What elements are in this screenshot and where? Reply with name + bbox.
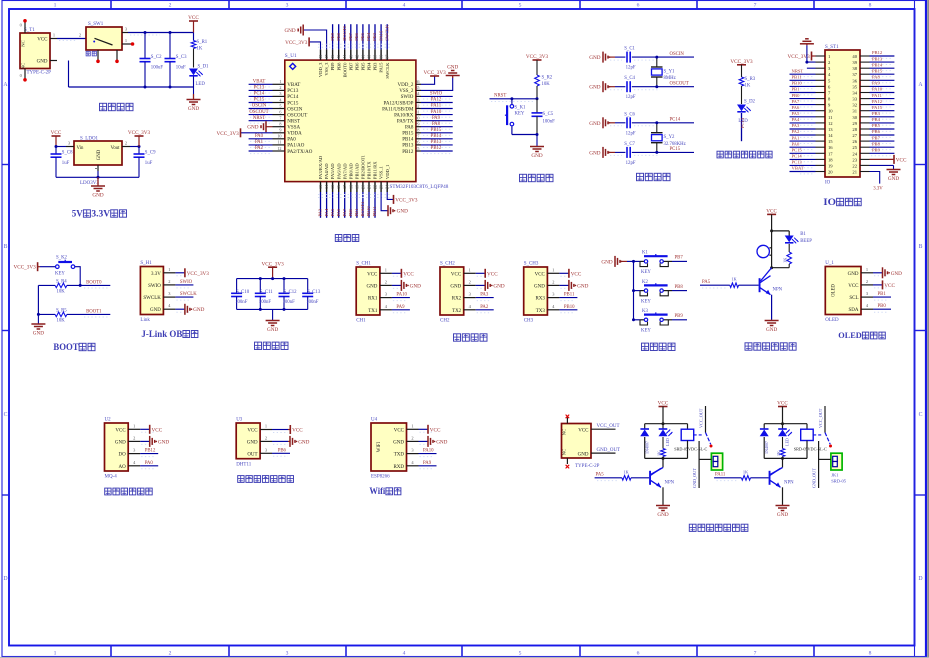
svg-text:NRST: NRST <box>287 120 300 125</box>
LED B1 BEEP <box>785 231 813 244</box>
svg-text:1K: 1K <box>197 47 203 52</box>
module U2 MQ-4 methane sensor <box>105 417 170 479</box>
svg-text:PB13: PB13 <box>872 56 883 61</box>
svg-text:U4: U4 <box>371 417 378 422</box>
svg-text:S_C2: S_C2 <box>151 55 162 60</box>
ground GND alarm <box>765 295 779 333</box>
svg-text:16: 16 <box>336 185 341 189</box>
svg-text:S_CH2: S_CH2 <box>440 261 455 266</box>
svg-text:2: 2 <box>265 435 267 440</box>
svg-text:S_D2: S_D2 <box>744 100 756 105</box>
svg-text:GND: GND <box>589 150 600 156</box>
svg-text:12pF: 12pF <box>626 161 636 166</box>
svg-text:LED: LED <box>196 82 206 87</box>
svg-text:2: 2 <box>552 279 554 284</box>
svg-text:TX2: TX2 <box>452 309 462 314</box>
svg-text:1: 1 <box>53 33 55 38</box>
svg-text:PA5: PA5 <box>330 208 335 216</box>
svg-text:PB8: PB8 <box>675 285 684 290</box>
svg-text:22: 22 <box>373 185 378 189</box>
resistor 1K alarm base <box>700 277 759 288</box>
svg-text:GND: GND <box>247 440 258 445</box>
svg-text:DHT11: DHT11 <box>236 463 252 468</box>
svg-text:33: 33 <box>852 97 857 102</box>
svg-text:PC15: PC15 <box>670 147 681 152</box>
power port VCC_3V3 at U1 pin9 VDDA <box>216 128 272 137</box>
svg-text:PB9: PB9 <box>872 148 881 153</box>
svg-text:23: 23 <box>852 157 857 162</box>
svg-text:12pF: 12pF <box>626 131 636 136</box>
svg-text:12pF: 12pF <box>626 66 636 71</box>
wire run LED to PC13 <box>740 113 745 141</box>
svg-text:NC: NC <box>21 40 26 46</box>
svg-text:PB15: PB15 <box>872 68 883 73</box>
ground GND above ST1 <box>800 39 814 46</box>
title: key circuit <box>642 343 676 350</box>
crystal S_Y1 8MHz <box>651 56 676 89</box>
svg-text:GND: GND <box>298 439 309 445</box>
svg-text:S_C5: S_C5 <box>543 112 554 117</box>
svg-text:32.768KHz: 32.768KHz <box>664 142 686 147</box>
svg-text:PB8: PB8 <box>336 62 341 71</box>
svg-text:PC13: PC13 <box>740 117 745 128</box>
svg-text:VCC_3V3: VCC_3V3 <box>423 70 446 76</box>
ground GND at U1 pin8 VSSA <box>247 121 272 132</box>
svg-text:VCC: VCC <box>152 427 163 433</box>
svg-text:GND: GND <box>577 283 588 289</box>
svg-text:PB7: PB7 <box>348 62 353 71</box>
svg-text:PC15: PC15 <box>254 98 265 103</box>
svg-text:1: 1 <box>265 424 267 429</box>
svg-text:GND: GND <box>436 439 447 445</box>
wire relay Q2 top rail <box>764 422 807 425</box>
svg-text:CH1: CH1 <box>356 319 366 324</box>
svg-text:PA10: PA10 <box>423 449 434 454</box>
svg-text:1: 1 <box>866 267 868 272</box>
svg-text:100nF: 100nF <box>306 300 319 305</box>
svg-text:1N4007: 1N4007 <box>644 441 649 454</box>
svg-text:S_C4: S_C4 <box>624 76 635 81</box>
ground GND LDO <box>91 177 105 198</box>
resistor 1K relay LED Q2 <box>776 437 785 458</box>
svg-text:PB5: PB5 <box>360 32 365 41</box>
svg-text:VCC: VCC <box>403 271 414 277</box>
ground GND ST1 pin22 <box>870 165 901 181</box>
power port VCC_3V3 LDO out <box>128 130 151 146</box>
svg-text:Wifi: Wifi <box>369 486 385 496</box>
svg-text:2: 2 <box>169 651 172 657</box>
svg-text:VSSA: VSSA <box>287 126 300 131</box>
title: methane detection module <box>105 488 153 495</box>
ground GND power circuit <box>187 94 201 112</box>
title: filter circuit <box>255 342 289 349</box>
svg-text:VCC: VCC <box>394 428 405 433</box>
svg-text:WIFI: WIFI <box>377 441 382 452</box>
svg-text:SWIO: SWIO <box>401 95 414 100</box>
title: power circuit <box>100 103 134 110</box>
svg-text:21: 21 <box>852 170 857 175</box>
svg-text:PA2/TX/AO: PA2/TX/AO <box>287 150 312 155</box>
svg-text:PB11: PB11 <box>372 206 377 217</box>
U1 right net wires and labels <box>421 92 453 154</box>
title: reset circuit <box>520 174 554 181</box>
svg-text:13: 13 <box>318 185 323 189</box>
wire BOOT0 net <box>67 280 110 288</box>
resistor S_R4 10K <box>55 279 67 294</box>
svg-text:GND: GND <box>247 125 258 131</box>
svg-text:35: 35 <box>852 84 857 89</box>
svg-text:PB12: PB12 <box>431 146 442 151</box>
svg-text:PB12: PB12 <box>872 50 883 55</box>
relay contact and output <box>694 406 713 448</box>
ground GND below chip <box>388 205 408 216</box>
title: main chip <box>335 235 359 242</box>
wire ST1 pin21 to 3.3V <box>870 172 884 192</box>
svg-text:PA4: PA4 <box>324 208 329 216</box>
svg-text:35: 35 <box>415 85 419 90</box>
svg-text:S_CH3: S_CH3 <box>524 261 539 266</box>
svg-text:PB13: PB13 <box>402 144 414 149</box>
connector TYPE-C-2P relay power <box>562 415 600 469</box>
title: temperature-humidity detection module <box>238 476 294 483</box>
svg-text:PB0/AD: PB0/AD <box>348 163 353 180</box>
svg-text:PC14: PC14 <box>792 154 803 159</box>
svg-text:100uF: 100uF <box>151 65 164 70</box>
svg-text:PA15: PA15 <box>379 62 384 73</box>
svg-text:PA6: PA6 <box>792 105 800 110</box>
svg-text:S_Y2: S_Y2 <box>664 135 676 140</box>
svg-text:GND: GND <box>766 327 777 333</box>
svg-text:25: 25 <box>852 145 857 150</box>
svg-text:VBAT: VBAT <box>792 166 804 171</box>
svg-text:GND_OUT: GND_OUT <box>692 468 697 488</box>
svg-text:VBAT: VBAT <box>287 83 300 88</box>
svg-text:30: 30 <box>415 116 419 121</box>
svg-text:PB14: PB14 <box>872 62 883 67</box>
wire BOOT1 net <box>67 309 110 317</box>
LED S_D1 <box>189 65 209 95</box>
svg-text:NC: NC <box>562 449 567 455</box>
title: J-Link OB interface <box>141 329 198 339</box>
svg-text:14: 14 <box>828 133 833 138</box>
svg-text:PA5: PA5 <box>792 111 800 116</box>
svg-text:GND: GND <box>493 283 504 289</box>
svg-text:BOOT: BOOT <box>53 343 79 353</box>
svg-text:5: 5 <box>279 103 281 108</box>
svg-text:S_K2: S_K2 <box>56 256 68 261</box>
svg-text:OSCOUT: OSCOUT <box>287 113 307 118</box>
svg-text:GND: GND <box>393 440 404 445</box>
capacitor S_C9 1uF <box>134 147 157 178</box>
svg-text:S_R2: S_R2 <box>542 76 553 81</box>
capacitor S_C1 12pF with GND and OSCIN <box>589 47 694 71</box>
title: IO expansion port <box>823 198 861 208</box>
title: BOOT circuit <box>53 343 95 353</box>
svg-text:1: 1 <box>385 267 387 272</box>
svg-text:STM32F103C8T6_LQFP48: STM32F103C8T6_LQFP48 <box>390 184 449 190</box>
svg-text:VCC: VCC <box>571 271 582 277</box>
svg-text:6: 6 <box>279 109 281 114</box>
svg-text:PB13: PB13 <box>431 140 442 145</box>
svg-text:S_D1: S_D1 <box>198 65 210 70</box>
svg-text:PA4/AD: PA4/AD <box>324 163 329 179</box>
svg-text:KEY: KEY <box>641 299 651 304</box>
U1 left pin stubs and numbers <box>273 79 285 151</box>
wire relay Q1 bottom rail <box>645 457 688 460</box>
svg-text:TYPE-C-2P: TYPE-C-2P <box>27 71 52 76</box>
svg-text:12: 12 <box>828 121 833 126</box>
svg-text:11: 11 <box>277 140 281 145</box>
svg-text:D: D <box>918 576 922 582</box>
svg-text:VCC: VCC <box>292 428 303 434</box>
svg-text:8: 8 <box>869 651 872 657</box>
svg-text:VCC: VCC <box>367 272 378 277</box>
capacitor S_C7 12pF with GND and PC15 <box>589 142 694 166</box>
svg-text:PB10/TX: PB10/TX <box>367 161 372 179</box>
svg-text:GND: GND <box>193 307 204 313</box>
wire U1 pin36 VDD_2 to VCC_3V3 <box>421 76 435 84</box>
svg-text:VCC_3V3: VCC_3V3 <box>526 54 549 60</box>
svg-text:IO: IO <box>823 198 836 208</box>
wire alarm top node <box>770 229 789 267</box>
svg-text:10K: 10K <box>542 82 551 87</box>
wire relay Q1 top rail <box>645 422 688 425</box>
svg-text:PB5: PB5 <box>361 62 366 71</box>
svg-text:S_C12: S_C12 <box>284 290 298 295</box>
U1 bottom net wires and labels <box>318 192 390 218</box>
svg-text:37: 37 <box>852 72 857 77</box>
svg-text:Vin: Vin <box>77 146 85 151</box>
svg-text:NPN: NPN <box>665 480 675 485</box>
ground GND reset <box>530 135 544 159</box>
svg-text:PA4: PA4 <box>792 117 800 122</box>
svg-text:4: 4 <box>403 3 406 9</box>
svg-text:S_U1: S_U1 <box>285 53 297 59</box>
svg-text:SDA: SDA <box>848 308 858 313</box>
svg-text:GND: GND <box>891 271 902 277</box>
svg-text:GND: GND <box>777 512 788 518</box>
svg-text:PA15: PA15 <box>872 105 883 110</box>
svg-text:VCC: VCC <box>51 130 62 136</box>
svg-text:VCC_3V3: VCC_3V3 <box>128 130 151 136</box>
ground GND top of chip <box>284 25 303 36</box>
svg-text:PB1/AD: PB1/AD <box>355 163 360 180</box>
svg-text:TYPE-C-2P: TYPE-C-2P <box>575 464 600 469</box>
svg-text:PB6: PB6 <box>278 448 287 453</box>
svg-text:VCC: VCC <box>535 272 546 277</box>
svg-text:27: 27 <box>415 134 419 139</box>
svg-text:1: 1 <box>411 423 413 428</box>
wire LDO pin3 to VCC <box>56 146 66 148</box>
capacitor S_C13 100nF <box>302 279 321 310</box>
svg-text:8: 8 <box>279 122 281 127</box>
svg-text:VCC_OUT: VCC_OUT <box>597 424 620 429</box>
svg-text:13: 13 <box>828 127 833 132</box>
svg-text:PA3/RX/AD: PA3/RX/AD <box>318 155 323 179</box>
svg-text:PB4: PB4 <box>366 32 371 41</box>
svg-text:VCC: VCC <box>578 429 589 434</box>
svg-text:U_1: U_1 <box>825 261 834 266</box>
svg-text:VCC_3V3: VCC_3V3 <box>261 261 284 267</box>
svg-text:PC14: PC14 <box>287 95 299 100</box>
svg-text:NC: NC <box>562 429 567 435</box>
svg-text:PB5: PB5 <box>872 123 881 128</box>
svg-text:PA12: PA12 <box>872 99 883 104</box>
svg-text:17: 17 <box>342 185 347 189</box>
svg-text:KEY: KEY <box>641 270 651 275</box>
svg-text:1: 1 <box>168 267 170 272</box>
wire U1 pin23 VSS_1 to GND <box>381 192 388 211</box>
svg-text:VSS_2: VSS_2 <box>399 89 414 94</box>
svg-text:1: 1 <box>54 651 57 657</box>
svg-text:PA10: PA10 <box>396 293 407 298</box>
svg-text:MQ-4: MQ-4 <box>105 475 118 480</box>
svg-text:26: 26 <box>415 140 419 145</box>
svg-text:PB11: PB11 <box>564 293 575 298</box>
svg-text:NC: NC <box>21 63 26 69</box>
buzzer <box>757 245 772 257</box>
svg-text:RXD: RXD <box>393 465 404 470</box>
svg-text:SCL: SCL <box>849 296 858 301</box>
svg-text:PB3: PB3 <box>872 111 881 116</box>
wire LDO pin2 to VCC_3V3 <box>130 146 139 148</box>
svg-text:PA11: PA11 <box>872 93 883 98</box>
svg-text:VCC: VCC <box>777 401 788 407</box>
wire U1 pin24 VDD_1 to VCC_3V3 <box>387 192 393 199</box>
svg-text:40: 40 <box>367 55 372 59</box>
svg-text:PA3: PA3 <box>792 123 800 128</box>
svg-text:B: B <box>919 244 923 250</box>
svg-text:J-Link OB: J-Link OB <box>141 329 182 339</box>
key K1 <box>634 251 688 275</box>
capacitor S_C3 10uF <box>165 33 188 88</box>
LED relay indicator Q2 <box>778 424 792 446</box>
key K2 <box>634 280 688 304</box>
svg-text:1K: 1K <box>623 469 629 474</box>
svg-text:GND: GND <box>848 272 859 277</box>
connector S_ST1 IO header body <box>816 45 870 186</box>
svg-text:GND: GND <box>531 153 542 159</box>
svg-text:SWIO: SWIO <box>430 92 443 97</box>
transistor Q NPN relay Q2 <box>769 458 795 487</box>
svg-text:2: 2 <box>469 279 471 284</box>
svg-text:39: 39 <box>373 55 378 59</box>
svg-text:PC15: PC15 <box>792 148 803 153</box>
svg-text:LED: LED <box>665 438 670 446</box>
svg-text:GND: GND <box>188 106 199 112</box>
svg-text:OSCIN: OSCIN <box>670 52 685 57</box>
svg-text:1: 1 <box>125 38 127 43</box>
svg-text:D: D <box>3 576 7 582</box>
U1 top pin stubs and numbers <box>318 49 390 60</box>
power port VCC relay Q2 <box>777 401 788 424</box>
wire U1 pin47 VSS_3 to GND <box>303 30 326 49</box>
svg-text:7: 7 <box>754 651 757 657</box>
svg-text:OLED: OLED <box>825 318 839 323</box>
svg-text:100nF: 100nF <box>235 300 248 305</box>
svg-text:VBAT: VBAT <box>253 80 266 85</box>
connector U_1 OLED display <box>825 261 902 323</box>
svg-text:OLED: OLED <box>838 330 862 340</box>
svg-text:U3: U3 <box>236 417 243 422</box>
svg-text:32: 32 <box>852 103 857 108</box>
title: program run indicator <box>717 151 772 158</box>
svg-text:PA3: PA3 <box>318 208 323 216</box>
svg-text:18: 18 <box>828 157 833 162</box>
resistor 1K relay base Q1 <box>595 469 650 480</box>
svg-text:VCC: VCC <box>430 427 441 433</box>
wire relay Q2 bottom rail <box>764 457 807 460</box>
ground GND right of chip <box>446 65 460 79</box>
capacitor S_C10 100nF <box>231 279 250 310</box>
wire GND_OUT relay Q1 <box>692 441 712 488</box>
svg-text:PB14: PB14 <box>431 134 442 139</box>
svg-text:23: 23 <box>379 185 384 189</box>
svg-text:8MHz: 8MHz <box>664 76 676 81</box>
svg-text:6: 6 <box>637 651 640 657</box>
U1 bottom pin stubs and numbers <box>318 182 390 192</box>
svg-text:100nF: 100nF <box>283 300 296 305</box>
svg-text:PA11/USB/DM: PA11/USB/DM <box>382 107 414 112</box>
power port VCC_3V3 run LED <box>730 59 753 65</box>
svg-text:IO: IO <box>825 181 831 186</box>
svg-text:GND: GND <box>410 283 421 289</box>
svg-text:BOOT1: BOOT1 <box>86 309 102 314</box>
svg-text:VCC: VCC <box>37 38 48 43</box>
svg-text:43: 43 <box>348 55 353 59</box>
svg-text:10K: 10K <box>57 289 66 294</box>
svg-text:PA2: PA2 <box>255 146 264 151</box>
svg-text:47: 47 <box>324 55 329 59</box>
svg-text:RX3: RX3 <box>535 297 545 302</box>
wire filter top rail <box>237 277 308 280</box>
power port VCC alarm <box>766 209 777 231</box>
svg-text:2: 2 <box>133 435 135 440</box>
power port VCC_3V3 reset <box>526 54 549 75</box>
svg-text:BOOT0: BOOT0 <box>342 25 347 41</box>
svg-text:S_ST1: S_ST1 <box>825 45 839 50</box>
diode 1N4007 flyback Q2 <box>760 424 769 459</box>
svg-text:S_C9: S_C9 <box>145 151 156 156</box>
svg-text:VCC: VCC <box>896 157 907 163</box>
svg-text:PB1: PB1 <box>354 208 359 217</box>
svg-text:SWIO: SWIO <box>180 280 193 285</box>
connector S_CH2 serial 2 <box>440 261 505 323</box>
svg-text:19: 19 <box>828 163 833 168</box>
power port VCC_3V3 top of chip <box>285 37 309 46</box>
svg-text:BOOT0: BOOT0 <box>342 62 347 78</box>
capacitor S_C4 12pF with GND and OSCOUT <box>589 76 694 100</box>
svg-text:VCC_3V3: VCC_3V3 <box>395 197 418 203</box>
svg-text:CH2: CH2 <box>440 319 450 324</box>
svg-text:PA1: PA1 <box>792 135 800 140</box>
svg-text:PA10: PA10 <box>431 110 442 115</box>
svg-text:1: 1 <box>54 3 57 9</box>
svg-text:SWCLK: SWCLK <box>143 296 161 301</box>
svg-text:K1: K1 <box>642 251 648 256</box>
svg-text:S_T1: S_T1 <box>24 28 35 33</box>
svg-text:1K: 1K <box>776 451 781 456</box>
svg-text:GND: GND <box>158 439 169 445</box>
svg-text:S_R5: S_R5 <box>56 308 67 313</box>
svg-text:PA5: PA5 <box>702 280 711 285</box>
svg-text:PB3: PB3 <box>372 32 377 41</box>
svg-text:3.3V: 3.3V <box>873 187 883 192</box>
svg-text:5V: 5V <box>72 209 83 219</box>
svg-text:S_LDO1: S_LDO1 <box>80 137 99 142</box>
transistor Q NPN relay Q1 <box>649 458 675 487</box>
svg-text:10K: 10K <box>57 318 66 323</box>
